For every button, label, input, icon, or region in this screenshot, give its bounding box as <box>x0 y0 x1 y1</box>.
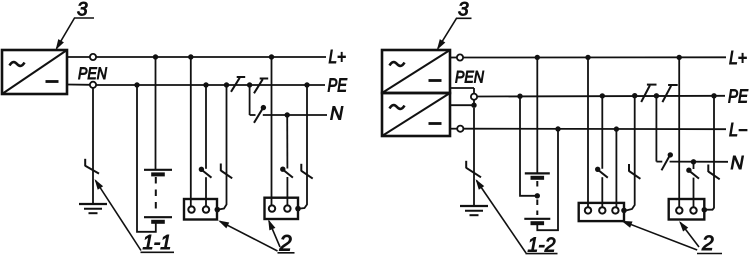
switch on load 2 neutral drop (right) <box>686 168 699 179</box>
wire battery negative lead to PEN (left) <box>137 85 156 232</box>
wire earthing conductor from PEN terminal (left) <box>92 88 94 204</box>
label 1-2 with leader arrow <box>477 181 558 256</box>
terminal M/PEN of converter midpoint (right) <box>450 88 477 105</box>
svg-text:L+: L+ <box>329 47 347 67</box>
terminal L+ of converter (right) <box>450 54 463 60</box>
battery dashed middle lower (right) <box>536 200 538 216</box>
wire L+ drop to load 2 (right) <box>678 57 680 207</box>
battery GB top cell (right) <box>525 173 550 177</box>
load 1 box with terminals (right) <box>579 203 627 221</box>
wire PEN drop to load 1 frame (left) <box>219 85 227 210</box>
switch on earthing conductor (right) <box>466 161 481 178</box>
wire PE drop to load 2 frame (left) <box>299 85 307 209</box>
wire L+ bus (right) <box>463 56 726 58</box>
link 2 in PE conductor (right) <box>662 85 677 102</box>
converter 3 lower unit (right diagram) <box>382 93 450 136</box>
load 1 box with terminals (left, exposed-conductive-part) <box>184 199 220 220</box>
wire PE bus (right) <box>477 95 725 98</box>
wire L+ drop to load 1 (right) <box>587 57 589 207</box>
switch on load 2 frame conductor (right) <box>708 165 719 180</box>
junction on L+ load 1 feed (right) <box>585 55 590 60</box>
link 2 in PE conductor (left) <box>254 79 268 94</box>
battery dashed middle (omitted cells, left) <box>155 177 157 214</box>
switch on load 1 neutral drop (right) <box>595 167 608 178</box>
wire N branch from split (left) <box>249 85 251 115</box>
svg-text:N: N <box>731 153 745 173</box>
wire earthing conductor from midpoint (right) <box>473 108 475 206</box>
wire N drop to load 2 (right) <box>693 162 695 208</box>
ground (right system earth) <box>460 206 488 215</box>
svg-text:L−: L− <box>729 120 748 140</box>
wire N bus (right) <box>656 161 728 163</box>
junction on PEN load 1 neutral feed (right) <box>600 93 605 98</box>
wire L+ drop to load 2 (left) <box>271 57 273 205</box>
wire L+ drop to load 1 (left) <box>190 57 192 206</box>
junction on N load 2 feed (right) <box>691 159 696 164</box>
battery GB bottom cell (right) <box>524 219 550 223</box>
battery dashed middle upper (right) <box>536 181 538 192</box>
wire PEN / PE bus (left) <box>96 84 325 86</box>
converter 3 upper unit (right diagram) <box>382 50 450 93</box>
junction on N load 2 feed (left) <box>285 112 290 117</box>
switch on load 2 neutral drop (left) <box>280 167 293 178</box>
battery GB top cell (left) <box>144 170 172 175</box>
junction battery midpoint tap (right) <box>535 193 540 198</box>
switch on load 2 frame conductor (left) <box>301 164 312 179</box>
svg-text:N: N <box>330 104 344 124</box>
load 2 box with terminals (right) <box>669 199 707 220</box>
svg-text:PE: PE <box>728 87 749 107</box>
junction midpoint to earth (right) <box>471 103 476 108</box>
wire battery positive lead (right) <box>536 57 538 173</box>
wire N bus (left) <box>250 114 327 116</box>
svg-text:PEN: PEN <box>455 69 484 87</box>
junction PEN split point (right) <box>654 93 659 98</box>
wire N branch from split (right) <box>655 96 657 162</box>
junction on L- load 1 feed (right) <box>614 126 619 131</box>
terminal L+ of converter (left) <box>67 54 96 60</box>
load 2 box with terminals (left) <box>265 198 301 219</box>
svg-text:1-2: 1-2 <box>528 235 556 256</box>
svg-text:PE: PE <box>328 76 348 96</box>
wire PE drop to load 2 frame (right) <box>705 96 714 210</box>
wire N drop to load 2 (left) <box>286 115 288 205</box>
terminal PEN of converter (left) <box>67 82 96 88</box>
junction on L+ load 1 feed (left) <box>188 54 193 59</box>
converter 3 (left diagram, AC/DC source) <box>2 50 67 94</box>
junction on PEN frame conductor load 1 (left) <box>224 82 229 87</box>
svg-text:2: 2 <box>701 232 714 255</box>
label 2 with leader arrows (left) <box>220 221 295 256</box>
junction on L+ load 2 feed (left) <box>269 54 274 59</box>
junction on L+ for battery (right) <box>535 55 540 60</box>
ground (left system earth) <box>79 204 107 213</box>
wire L- bus (right) <box>464 128 727 131</box>
wire battery positive lead (left) <box>155 57 157 169</box>
battery GB bottom cell (left) <box>144 217 172 222</box>
junction on L+ for battery (left) <box>153 54 158 59</box>
label 2 with leader arrows (right) <box>623 221 722 255</box>
svg-text:1-1: 1-1 <box>143 232 172 254</box>
junction on PE frame conductor load 2 (left) <box>304 82 309 87</box>
label 1-1 with leader arrow <box>96 181 175 255</box>
switch on load 1 neutral drop (left) <box>199 167 212 178</box>
junction PEN split point (left) <box>247 82 252 87</box>
switch on load 1 frame conductor (right) <box>629 164 640 179</box>
junction battery negative on L- (right) <box>555 126 560 131</box>
wire PEN drop to load 1 frame (right) <box>627 96 635 211</box>
switch on load 1 frame conductor (left) <box>221 164 232 179</box>
wire PEN drop to load 1 (right) <box>601 96 603 207</box>
link in N conductor (left) <box>254 105 266 123</box>
link 1 in PEN conductor (right split point) <box>641 85 656 102</box>
junction battery negative on PEN (left) <box>134 82 139 87</box>
link 1 in PEN conductor (left split point) <box>231 77 245 92</box>
junction on PE frame conductor load 2 (right) <box>711 93 716 98</box>
junction on PEN frame conductor load 1 (right) <box>632 93 637 98</box>
svg-text:2: 2 <box>279 231 292 256</box>
junction on L+ load 2 feed (right) <box>677 55 682 60</box>
svg-text:3: 3 <box>458 0 469 21</box>
wire L- drop to load 1 (right) <box>615 129 617 207</box>
svg-text:PEN: PEN <box>78 65 107 83</box>
junction midpoint tap on PE (right) <box>517 94 522 99</box>
svg-text:L+: L+ <box>729 48 747 68</box>
wire midpoint tap to PE (right) <box>520 96 537 196</box>
label 3 with leader arrow (left) <box>57 0 95 49</box>
switch on earthing conductor (left) <box>85 159 99 174</box>
label 3 with leader arrow (right) <box>438 0 472 49</box>
terminal L- of converter (right) <box>450 126 463 132</box>
junction on PEN load 1 neutral feed (left) <box>203 82 208 87</box>
link in N conductor (right) <box>662 152 674 170</box>
wire PEN drop to load 1 (left) <box>205 85 207 206</box>
wire battery negative lead to L- (right) <box>537 129 558 230</box>
wire L+ bus (left) <box>96 56 326 58</box>
